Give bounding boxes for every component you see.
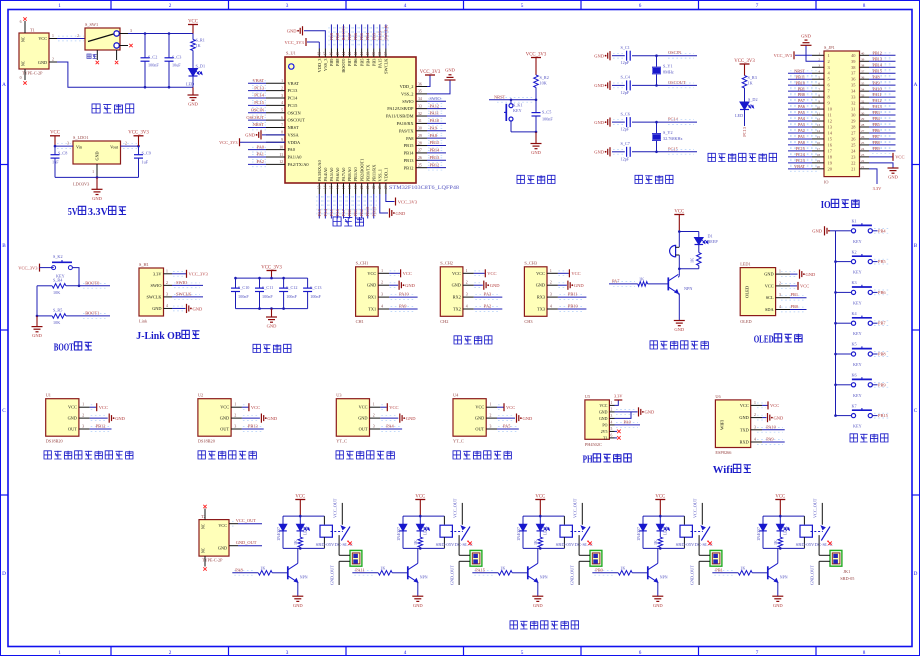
svg-text:PB1: PB1 — [791, 292, 799, 297]
svg-text:1K: 1K — [196, 43, 201, 48]
U1 top pin 38 PA15 — [379, 49, 381, 58]
svg-text:PA1/A0: PA1/A0 — [288, 155, 303, 160]
svg-text:BEEP: BEEP — [708, 239, 719, 244]
JP1 right pin 34 PA10 — [860, 90, 870, 92]
svg-text:36: 36 — [861, 75, 865, 79]
transistor NPN relay 5 — [767, 566, 769, 579]
net label PB1 relay 5 — [714, 569, 734, 571]
svg-text:20: 20 — [360, 185, 364, 189]
svg-text:25: 25 — [861, 141, 865, 145]
svg-text:PA4: PA4 — [798, 116, 806, 121]
JP1 right pin 39 PB13 — [860, 60, 870, 62]
svg-text:PB14: PB14 — [873, 62, 883, 67]
U1 right pin 26 PB13 — [416, 159, 427, 161]
svg-text:VDD_2: VDD_2 — [400, 84, 414, 89]
svg-text:3: 3 — [286, 650, 289, 656]
svg-text:VCC_3V3: VCC_3V3 — [261, 265, 282, 270]
svg-text:GND_OUT: GND_OUT — [570, 565, 575, 585]
svg-text:PA8: PA8 — [430, 133, 438, 138]
svg-text:GND: GND — [599, 417, 608, 421]
svg-text:S_K1: S_K1 — [513, 103, 523, 108]
JP1 right pin 30 PB3 — [860, 114, 870, 116]
connector T2 TYPE-C-2P output — [199, 520, 229, 557]
svg-text:1K: 1K — [690, 258, 695, 263]
JP1 left pin 15 PA1 — [812, 138, 824, 140]
pin 1 VCC of T1 — [49, 38, 57, 40]
JP1 right pin 36 PA8 — [860, 78, 870, 80]
svg-text:PB7: PB7 — [873, 134, 880, 139]
svg-text:PB0: PB0 — [347, 208, 352, 216]
svg-text:S_R4: S_R4 — [53, 278, 63, 283]
svg-text:PB5: PB5 — [359, 58, 364, 66]
svg-text:Vin: Vin — [76, 144, 83, 149]
svg-text:VCC: VCC — [389, 405, 398, 410]
JP1 left pin 7 PB1 — [812, 90, 824, 92]
svg-text:1uF: 1uF — [52, 160, 59, 165]
svg-text:2: 2 — [381, 281, 383, 285]
svg-text:31: 31 — [851, 107, 855, 112]
U1 left pin 10 PA0 — [266, 149, 285, 151]
U1 bottom pin 21 PB10/TX — [367, 183, 369, 194]
JP1 left pin 13 PA3 — [812, 126, 824, 128]
svg-text:SWCLK: SWCLK — [176, 291, 192, 296]
svg-text:S_C2: S_C2 — [148, 55, 157, 60]
transistor NPN relay 1 — [287, 566, 289, 579]
LED relay 1 — [299, 516, 301, 524]
svg-text:30: 30 — [861, 111, 865, 115]
svg-text:PA10: PA10 — [873, 86, 882, 91]
svg-text:PA5: PA5 — [329, 208, 334, 216]
svg-text:1: 1 — [373, 403, 375, 407]
U1 left pin 5 OSCIN — [266, 112, 285, 114]
U1 right pin 29 PA8 — [416, 137, 427, 139]
wire filter top rail — [236, 277, 308, 279]
relay unit 5 top rail wire — [763, 515, 804, 517]
connector S_JP1 IO header — [824, 51, 860, 177]
push button K1 KEY — [836, 230, 851, 232]
push button K3 KEY — [834, 291, 837, 294]
svg-text:PA7: PA7 — [612, 278, 620, 283]
svg-text:1K: 1K — [260, 566, 265, 571]
svg-text:28: 28 — [861, 123, 865, 127]
svg-text:37: 37 — [384, 52, 388, 56]
JP1 left pin 1 VCC_3V3 — [812, 54, 824, 56]
svg-text:4: 4 — [754, 438, 756, 442]
module U4 YT_C — [453, 399, 486, 437]
svg-text:GND: GND — [594, 83, 604, 88]
JP1 left pin 11 PA5 — [812, 114, 824, 116]
svg-text:PB13: PB13 — [248, 424, 259, 429]
svg-text:2: 2 — [550, 281, 552, 285]
switch S_SW1 — [85, 28, 120, 50]
svg-text:1: 1 — [828, 53, 830, 58]
svg-text:GND: GND — [536, 283, 545, 288]
net label BOOT1 — [83, 313, 108, 315]
svg-text:VCC_OUT: VCC_OUT — [333, 498, 338, 518]
U1 top pin 39 PB3 — [373, 49, 375, 58]
relay unit 3 power flag VCC — [535, 499, 545, 501]
svg-text:CH2: CH2 — [440, 319, 448, 324]
JP1 right pin 40 PB12 — [860, 54, 870, 56]
svg-text:PB13: PB13 — [873, 56, 882, 61]
svg-text:12pF: 12pF — [621, 60, 630, 65]
wire LED to net PC13 — [744, 110, 746, 127]
svg-text:GND: GND — [92, 196, 102, 201]
svg-text:31: 31 — [418, 119, 422, 123]
svg-text:OSCOUT: OSCOUT — [246, 115, 264, 120]
svg-text:LED: LED — [423, 527, 427, 535]
U1 left pin 3 PC14 — [266, 97, 285, 99]
svg-text:VCC_3V3: VCC_3V3 — [526, 52, 547, 57]
svg-text:VCC_3V3: VCC_3V3 — [189, 272, 209, 277]
relay unit 5 power flag VCC — [775, 499, 785, 501]
svg-text:BOOT: BOOT — [54, 343, 74, 354]
LED S_D2 — [740, 102, 749, 110]
ground GND relay 1 — [292, 595, 303, 597]
U1 bottom pin 18 PB0/A0 — [349, 183, 351, 194]
svg-text:PA4: PA4 — [386, 424, 394, 429]
terminal connector relay 4 — [698, 535, 700, 555]
svg-text:PB9: PB9 — [873, 146, 880, 151]
LED S_D1 — [189, 69, 198, 77]
svg-text:WIFI: WIFI — [720, 420, 725, 430]
svg-text:SWIO: SWIO — [151, 283, 162, 288]
svg-text:12pF: 12pF — [621, 90, 630, 95]
svg-text:VCC: VCC — [452, 271, 461, 276]
svg-text:PB14: PB14 — [404, 151, 415, 156]
svg-text:6: 6 — [20, 20, 22, 24]
resistor S_R4 10K — [37, 285, 52, 287]
svg-text:PB8: PB8 — [335, 58, 340, 66]
svg-text:VCC_OUT: VCC_OUT — [236, 518, 257, 523]
svg-text:PB4: PB4 — [878, 228, 886, 233]
svg-text:GND_OUT: GND_OUT — [450, 565, 455, 585]
svg-text:PB5: PB5 — [359, 32, 364, 40]
capacitor S_C6 12pF — [612, 121, 625, 123]
svg-text:VCC: VCC — [220, 405, 229, 410]
module S_CH3 serial port — [524, 267, 547, 317]
svg-text:PA15: PA15 — [377, 30, 382, 40]
svg-text:GND: GND — [523, 416, 533, 421]
svg-text:11: 11 — [828, 113, 832, 118]
ground GND boot — [36, 316, 38, 327]
svg-text:30: 30 — [418, 127, 422, 131]
svg-text:42: 42 — [354, 52, 358, 56]
svg-text:VCC: VCC — [295, 494, 305, 499]
svg-text:GND: GND — [95, 151, 100, 160]
svg-text:1N4007: 1N4007 — [517, 527, 521, 541]
svg-text:VCC_3V3: VCC_3V3 — [285, 40, 305, 45]
svg-text:PA0: PA0 — [624, 420, 631, 425]
svg-text:2: 2 — [169, 650, 172, 656]
svg-text:S_C7: S_C7 — [621, 141, 630, 146]
svg-text:5V: 5V — [68, 207, 79, 218]
svg-text:PA12: PA12 — [430, 103, 440, 108]
svg-text:S_C13: S_C13 — [310, 285, 321, 290]
JP1 right pin 22 GNDSYM — [860, 162, 870, 164]
svg-text:GND: GND — [599, 410, 608, 414]
svg-text:GND: GND — [188, 102, 198, 107]
svg-text:0: 0 — [20, 76, 22, 80]
svg-text:37: 37 — [861, 69, 865, 73]
svg-text:NC: NC — [202, 523, 206, 529]
svg-text:PB3: PB3 — [873, 110, 880, 115]
svg-text:PB3: PB3 — [371, 32, 376, 40]
svg-text:VCC_3V3: VCC_3V3 — [128, 131, 149, 136]
svg-text:D: D — [2, 571, 6, 577]
svg-text:PA0: PA0 — [257, 144, 265, 149]
svg-text:23: 23 — [378, 185, 382, 189]
svg-text:8MHz: 8MHz — [663, 70, 674, 75]
svg-text:VCC_OUT: VCC_OUT — [453, 498, 458, 518]
U1 right pin 32 PA11/USB/DM — [416, 115, 427, 117]
svg-text:S_R5: S_R5 — [53, 308, 62, 313]
svg-text:S_CH1: S_CH1 — [356, 261, 369, 266]
svg-text:PA8: PA8 — [406, 136, 414, 141]
svg-text:1: 1 — [611, 401, 613, 405]
module S_CH2 serial port — [440, 267, 463, 317]
svg-text:1N4007: 1N4007 — [277, 527, 281, 541]
svg-text:LED: LED — [735, 113, 743, 118]
svg-text:PB11: PB11 — [796, 74, 805, 79]
svg-text:35: 35 — [418, 90, 422, 94]
svg-text:GND: GND — [806, 272, 816, 277]
svg-text:47: 47 — [324, 52, 328, 56]
svg-text:41: 41 — [360, 52, 364, 56]
svg-text:GND: GND — [739, 415, 748, 420]
JP1 left pin 17 PC15 — [812, 150, 824, 152]
push button K2 KEY — [834, 260, 837, 263]
svg-text:S_C10: S_C10 — [238, 285, 249, 290]
U1 top pin 41 PB5 — [361, 49, 363, 58]
U1 right pin 36 VDD_2 — [416, 86, 427, 88]
svg-text:40: 40 — [861, 52, 865, 56]
svg-text:LED1: LED1 — [740, 262, 751, 267]
power flag VCC_3V3 indicator — [740, 63, 750, 65]
svg-text:32: 32 — [851, 101, 855, 106]
svg-text:A: A — [2, 82, 6, 88]
svg-text:PB14: PB14 — [430, 148, 441, 153]
caption jingzhen dianlu — [635, 175, 673, 183]
svg-text:S_JP1: S_JP1 — [824, 45, 835, 50]
svg-text:J-Link OB: J-Link OB — [136, 331, 181, 342]
svg-text:PB8: PB8 — [335, 32, 340, 40]
svg-text:GND: GND — [594, 120, 604, 125]
svg-text:12pF: 12pF — [621, 156, 630, 161]
svg-text:VCC: VCC — [403, 271, 412, 276]
svg-text:3.3V: 3.3V — [614, 393, 623, 398]
svg-text:OLED: OLED — [740, 319, 751, 324]
svg-text:OLED: OLED — [754, 335, 774, 346]
svg-text:GND: GND — [245, 133, 255, 138]
connector S_H1 J-Link — [139, 268, 164, 316]
svg-text:4: 4 — [779, 305, 781, 309]
svg-text:VCC: VCC — [895, 155, 904, 160]
svg-text:YT_C: YT_C — [336, 439, 347, 444]
svg-text:1: 1 — [779, 270, 781, 274]
U1 bottom pin 17 PA7/A0 — [343, 183, 345, 194]
svg-text:16: 16 — [817, 141, 821, 145]
svg-text:32.768KHz: 32.768KHz — [663, 136, 683, 141]
caption relay control circuit — [510, 621, 579, 629]
svg-text:PB6: PB6 — [873, 128, 880, 133]
svg-text:1N4007: 1N4007 — [757, 527, 761, 541]
svg-text:2: 2 — [281, 86, 283, 90]
wire key to cap bottom — [511, 131, 536, 133]
JP1 left pin 3 nc — [812, 66, 824, 68]
svg-text:1: 1 — [58, 650, 61, 656]
svg-text:PA11: PA11 — [430, 111, 439, 116]
ground GND ldo — [96, 177, 98, 189]
capacitor S_C4 12pF — [612, 84, 625, 86]
svg-text:VCC: VCC — [674, 209, 684, 214]
svg-text:PB6: PB6 — [878, 290, 886, 295]
svg-text:PB0: PB0 — [791, 304, 799, 309]
relay unit 2 bottom rail wire — [403, 547, 444, 549]
svg-text:PB9: PB9 — [878, 382, 886, 387]
svg-text:SRD-05VDC-SL-C: SRD-05VDC-SL-C — [436, 543, 473, 547]
svg-text:10: 10 — [817, 105, 821, 109]
net label PB7 — [872, 322, 877, 324]
svg-text:9: 9 — [281, 138, 283, 142]
JP1 right pin 25 PB8 — [860, 144, 870, 146]
svg-text:PC15: PC15 — [254, 100, 265, 105]
svg-text:PB2: PB2 — [359, 209, 364, 217]
svg-text:4: 4 — [611, 421, 613, 425]
pin 6 no-connect of T1 — [24, 21, 26, 33]
push button K7 KEY — [834, 414, 837, 417]
svg-text:GND_OUT: GND_OUT — [690, 565, 695, 585]
svg-text:5: 5 — [521, 650, 524, 656]
ground GND relay 2 — [412, 595, 423, 597]
svg-text:PB1/A0: PB1/A0 — [353, 167, 358, 182]
svg-text:VCC_3V3: VCC_3V3 — [398, 199, 418, 204]
ground GND relay 4 — [652, 595, 663, 597]
svg-text:PA9: PA9 — [430, 125, 438, 130]
svg-text:VBAT: VBAT — [253, 78, 265, 83]
svg-text:PC14: PC14 — [288, 96, 299, 101]
svg-text:GND: GND — [287, 29, 297, 34]
svg-text:4: 4 — [166, 304, 168, 308]
svg-text:NRST: NRST — [288, 125, 300, 130]
caption lvbo dianlu — [253, 344, 291, 352]
svg-text:PA15: PA15 — [475, 567, 485, 572]
svg-text:PB1: PB1 — [353, 209, 358, 217]
svg-text:K5: K5 — [852, 342, 857, 347]
U1 bottom pin 15 PA5/A0 — [330, 183, 332, 194]
relay coil box 4 SRD-05VDC-SL-C — [683, 516, 685, 524]
svg-text:100nF: 100nF — [262, 294, 273, 299]
svg-text:OSCIN: OSCIN — [668, 50, 682, 55]
U1 right pin 30 PA9/TX — [416, 130, 427, 132]
svg-text:PB5: PB5 — [878, 259, 886, 264]
svg-text:VCC: VCC — [188, 19, 198, 24]
T2 VCC pin to VCC_OUT — [229, 523, 238, 525]
T2 GND pin to GND_OUT — [229, 545, 238, 547]
svg-text:SRD-05VDC-SL-C: SRD-05VDC-SL-C — [796, 543, 833, 547]
net label PB15 — [872, 415, 877, 417]
module S_CH1 serial port — [356, 267, 379, 317]
svg-text:DS18B20: DS18B20 — [198, 439, 215, 444]
U1 bottom pin 19 PB1/A0 — [355, 183, 357, 194]
svg-text:PB12: PB12 — [404, 165, 414, 170]
JP1 left pin 12 PA4 — [812, 120, 824, 122]
wire VCC to Vin pin 3 — [55, 145, 73, 147]
svg-text:1K: 1K — [380, 566, 385, 571]
svg-text:1K: 1K — [748, 81, 753, 86]
relay unit 2 power flag VCC — [415, 499, 425, 501]
diode 1N4007 relay 3 — [522, 516, 524, 524]
transistor NPN relay 3 — [527, 566, 529, 579]
svg-text:PA9: PA9 — [873, 80, 880, 85]
svg-text:S_C3: S_C3 — [172, 55, 181, 60]
wire left vertical boot — [36, 286, 38, 316]
svg-text:5: 5 — [611, 427, 613, 431]
svg-text:13: 13 — [318, 185, 322, 189]
net label PB5 — [872, 261, 877, 263]
svg-text:LED: LED — [186, 82, 194, 87]
svg-text:1K: 1K — [639, 277, 644, 282]
svg-text:U4: U4 — [453, 393, 459, 398]
capacitor S_C13 100nF — [307, 278, 309, 288]
U1 left pin 8 VSSA — [266, 134, 285, 136]
svg-text:S_C9: S_C9 — [142, 151, 151, 156]
svg-text:VCC: VCC — [251, 405, 260, 410]
JP1 left pin 14 PA2 — [812, 132, 824, 134]
svg-text:4: 4 — [466, 305, 468, 309]
svg-text:100nF: 100nF — [148, 63, 159, 68]
svg-text:VCC: VCC — [99, 405, 108, 410]
svg-text:18: 18 — [817, 153, 821, 157]
svg-text:NPN: NPN — [420, 576, 428, 580]
svg-text:5: 5 — [521, 3, 524, 9]
capacitor S_C3 10uF — [168, 34, 170, 58]
regulator S_LDO1 — [73, 141, 121, 164]
svg-text:S_C11: S_C11 — [262, 285, 273, 290]
svg-text:2: 2 — [490, 414, 492, 418]
svg-text:24: 24 — [861, 147, 865, 151]
svg-text:Link: Link — [139, 319, 148, 324]
svg-text:3: 3 — [754, 425, 756, 429]
svg-text:3.3V: 3.3V — [153, 271, 162, 276]
wire VSS_3 to GND flag — [304, 31, 325, 49]
svg-text:1K: 1K — [500, 566, 505, 571]
JP1 right pin 32 PA12 — [860, 102, 870, 104]
resistor S_R5 10K — [37, 315, 52, 317]
JP1 left pin 16 PA0 — [812, 144, 824, 146]
svg-text:10K: 10K — [53, 290, 60, 295]
MCU U1 STM32F103C8T6_LQFP48 — [285, 57, 416, 183]
svg-text:NPN: NPN — [780, 576, 788, 580]
svg-text:2V5: 2V5 — [601, 430, 608, 434]
svg-text:CH1: CH1 — [356, 319, 364, 324]
svg-text:VSSA: VSSA — [288, 132, 300, 137]
svg-text:SWCLK: SWCLK — [383, 24, 388, 40]
svg-text:B: B — [2, 243, 6, 249]
power flag VCC — [188, 24, 198, 26]
svg-text:3.3V: 3.3V — [88, 207, 109, 218]
relay unit 4 bottom rail wire — [643, 547, 684, 549]
wire GND bottom rail — [57, 62, 193, 87]
svg-text:S_C1: S_C1 — [621, 45, 630, 50]
svg-text:KEY: KEY — [853, 300, 862, 305]
U1 bottom pin 24 VDD_1 — [385, 183, 387, 194]
svg-text:VSS_3: VSS_3 — [323, 58, 328, 71]
ground flag crystal row PC14 — [609, 118, 611, 127]
svg-text:PB7: PB7 — [347, 32, 352, 40]
svg-text:1: 1 — [281, 79, 283, 83]
svg-text:GND: GND — [764, 272, 773, 277]
